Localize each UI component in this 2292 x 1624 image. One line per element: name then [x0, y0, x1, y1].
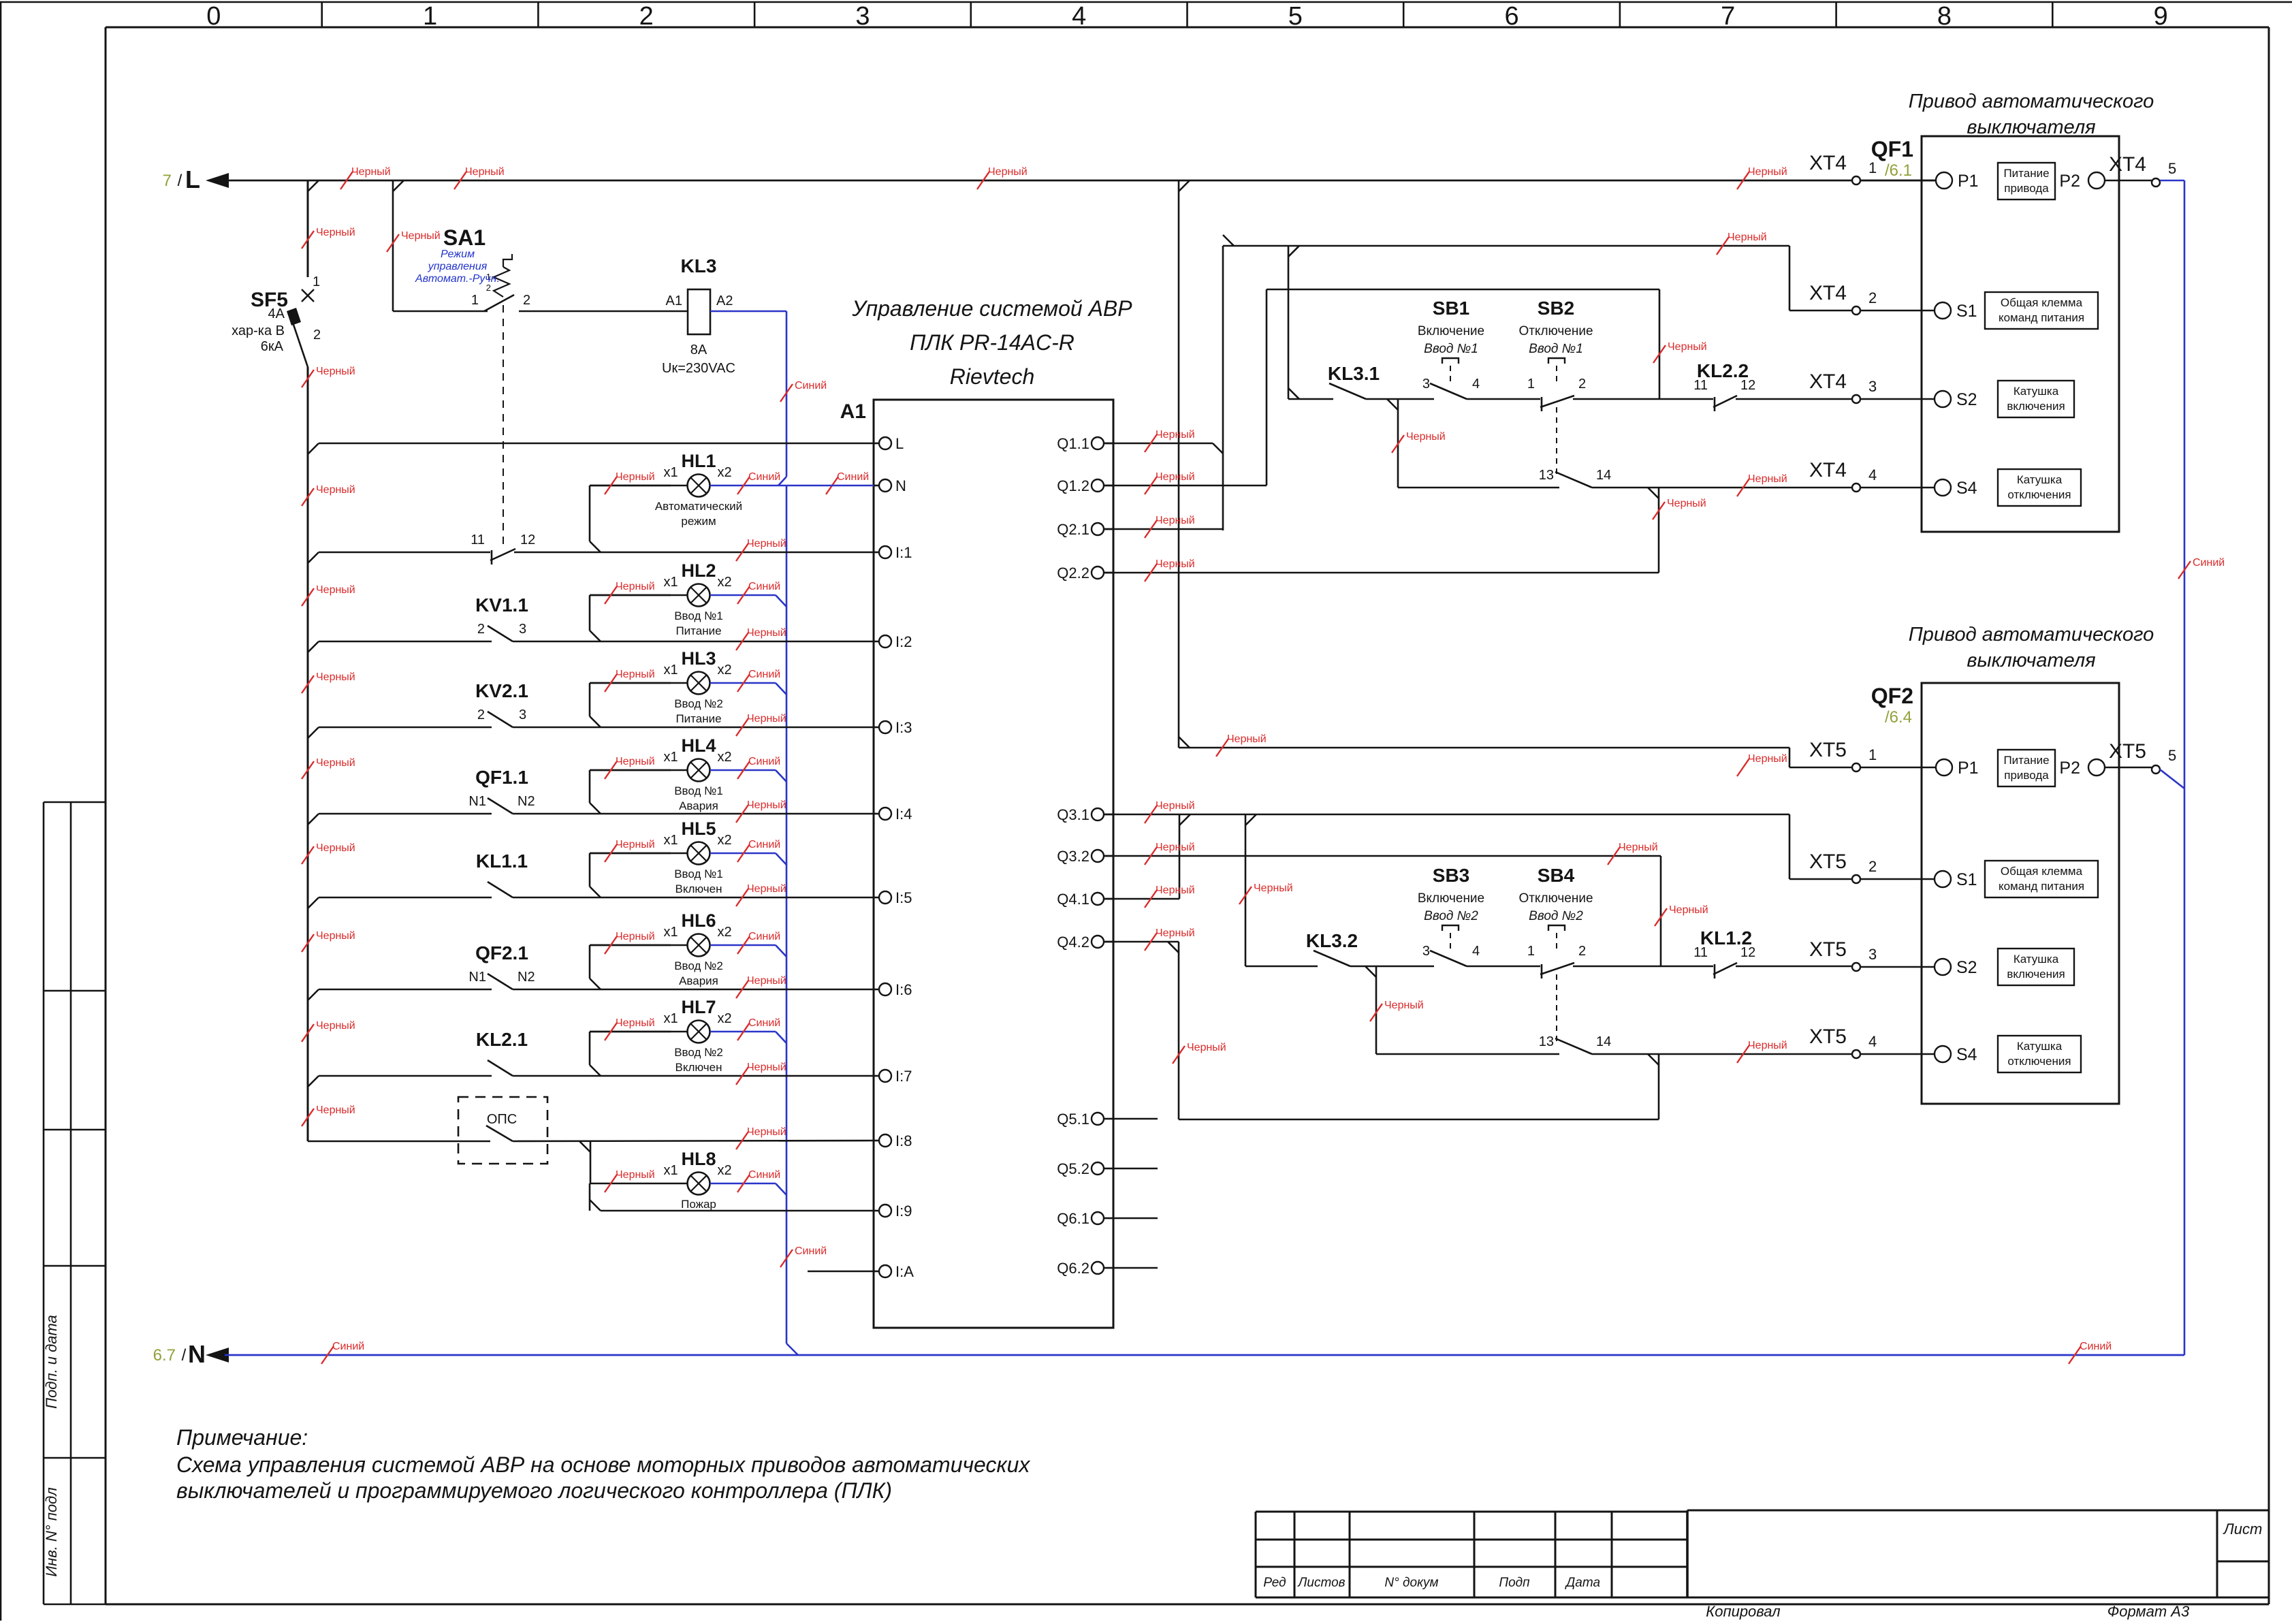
svg-text:Отключение: Отключение [1518, 891, 1593, 906]
svg-text:2: 2 [639, 2, 654, 31]
svg-text:Ввод №1: Ввод №1 [1424, 342, 1478, 356]
svg-text:управления: управления [428, 261, 488, 272]
svg-text:I:5: I:5 [895, 889, 912, 906]
svg-text:Питание: Питание [675, 624, 721, 637]
svg-text:Черный: Черный [747, 799, 786, 811]
svg-text:8А: 8А [690, 343, 707, 357]
svg-text:Ред: Ред [1263, 1576, 1286, 1590]
svg-text:Синий: Синий [2193, 557, 2225, 569]
svg-text:KL2.1: KL2.1 [476, 1029, 528, 1050]
svg-text:XT5: XT5 [1809, 850, 1847, 873]
svg-text:14: 14 [1596, 468, 1611, 483]
svg-text:0: 0 [206, 2, 221, 31]
svg-text:N1: N1 [468, 970, 486, 985]
svg-text:Черный: Черный [1748, 166, 1787, 178]
svg-text:Инв. N° подл: Инв. N° подл [43, 1487, 60, 1576]
svg-text:3: 3 [1868, 946, 1877, 963]
svg-text:2: 2 [477, 622, 485, 637]
svg-text:Черный: Черный [316, 930, 355, 942]
svg-text:x1: x1 [663, 750, 678, 765]
svg-text:HL8: HL8 [681, 1149, 716, 1169]
svg-text:11: 11 [471, 532, 485, 547]
svg-text:Включение: Включение [1418, 324, 1484, 338]
svg-text:Черный: Черный [747, 713, 786, 725]
svg-text:XT4: XT4 [1809, 459, 1847, 481]
svg-text:3: 3 [1868, 378, 1877, 395]
svg-text:/: / [182, 1346, 187, 1365]
svg-text:XT5: XT5 [1809, 739, 1847, 761]
svg-text:x1: x1 [663, 465, 678, 480]
svg-text:N: N [895, 477, 906, 494]
svg-text:Ввод №2: Ввод №2 [674, 959, 723, 972]
svg-text:Черный: Черный [1667, 498, 1706, 509]
svg-text:Синий: Синий [748, 471, 780, 483]
svg-text:x2: x2 [717, 1011, 731, 1026]
svg-text:P2: P2 [2059, 759, 2080, 778]
svg-text:QF2.1: QF2.1 [475, 942, 528, 964]
svg-text:Черный: Черный [1748, 1040, 1787, 1051]
svg-text:I:7: I:7 [895, 1068, 912, 1085]
svg-text:Примечание:: Примечание: [176, 1425, 308, 1450]
svg-text:Включение: Включение [1418, 891, 1484, 906]
svg-text:Ввод №2: Ввод №2 [1424, 909, 1478, 923]
svg-text:Черный: Черный [616, 931, 655, 942]
svg-text:Черный: Черный [747, 883, 786, 895]
svg-text:Черный: Черный [1156, 558, 1195, 570]
svg-text:1: 1 [1527, 944, 1535, 959]
svg-text:Ввод №1: Ввод №1 [674, 609, 723, 622]
svg-text:HL5: HL5 [681, 818, 716, 839]
svg-text:Привод автоматического: Привод автоматического [1909, 91, 2154, 112]
svg-text:Черный: Черный [1156, 885, 1195, 896]
svg-text:Автоматический: Автоматический [655, 500, 742, 513]
svg-text:Пожар: Пожар [681, 1198, 716, 1211]
svg-text:Черный: Черный [1668, 341, 1707, 353]
svg-text:Q3.2: Q3.2 [1057, 848, 1089, 865]
svg-text:Ввод №1: Ввод №1 [1529, 342, 1583, 356]
svg-text:3: 3 [1422, 377, 1430, 392]
svg-text:Черный: Черный [351, 166, 391, 178]
svg-text:Синий: Синий [795, 1245, 827, 1257]
svg-text:4: 4 [1868, 466, 1877, 483]
svg-text:x2: x2 [717, 575, 731, 590]
svg-text:Черный: Черный [1669, 904, 1708, 916]
svg-text:Черный: Черный [1384, 1000, 1424, 1011]
svg-text:Q5.1: Q5.1 [1057, 1111, 1089, 1128]
svg-text:13: 13 [1539, 1034, 1554, 1049]
svg-text:1: 1 [313, 274, 320, 289]
svg-text:Общая клемма: Общая клемма [2001, 296, 2083, 309]
svg-text:4: 4 [1472, 377, 1480, 392]
svg-text:A1: A1 [840, 400, 866, 423]
svg-text:Черный: Черный [1156, 842, 1195, 853]
svg-text:Q1.2: Q1.2 [1057, 477, 1089, 494]
svg-text:1: 1 [1527, 377, 1535, 392]
svg-text:S4: S4 [1956, 1045, 1977, 1064]
svg-text:2: 2 [1578, 377, 1586, 392]
svg-text:x1: x1 [663, 1163, 678, 1178]
svg-text:Черный: Черный [316, 757, 355, 769]
svg-text:Автомат.-Ручн.: Автомат.-Ручн. [415, 273, 500, 285]
svg-text:Черный: Черный [316, 671, 355, 683]
svg-text:Черный: Черный [316, 1104, 355, 1116]
svg-text:Синий: Синий [748, 1017, 780, 1029]
svg-text:включения: включения [2007, 968, 2065, 981]
svg-text:Синий: Синий [2080, 1341, 2112, 1352]
svg-text:Черный: Черный [465, 166, 505, 178]
svg-text:Катушка: Катушка [2017, 1040, 2063, 1053]
svg-text:Черный: Черный [316, 584, 355, 596]
svg-text:SA1: SA1 [443, 225, 486, 250]
svg-text:Черный: Черный [616, 581, 655, 592]
svg-text:Авария: Авария [679, 974, 718, 987]
svg-text:14: 14 [1596, 1034, 1611, 1049]
svg-text:Q3.1: Q3.1 [1057, 806, 1089, 823]
svg-text:HL3: HL3 [681, 648, 716, 669]
svg-text:включения: включения [2007, 400, 2065, 413]
svg-text:x2: x2 [717, 663, 731, 678]
svg-text:Q2.2: Q2.2 [1057, 564, 1089, 582]
svg-text:Отключение: Отключение [1518, 324, 1593, 338]
svg-text:Ввод №1: Ввод №1 [674, 867, 723, 880]
svg-text:Черный: Черный [1227, 733, 1267, 745]
svg-text:3: 3 [519, 707, 526, 722]
svg-text:Q6.2: Q6.2 [1057, 1260, 1089, 1277]
svg-text:Синий: Синий [748, 931, 780, 942]
svg-text:Питание: Питание [675, 712, 721, 725]
svg-text:S2: S2 [1956, 390, 1977, 409]
svg-text:N1: N1 [468, 794, 486, 809]
svg-text:12: 12 [1740, 945, 1755, 960]
svg-text:11: 11 [1693, 378, 1708, 393]
svg-text:2: 2 [477, 707, 485, 722]
svg-text:Черный: Черный [1748, 753, 1787, 765]
svg-text:Черный: Черный [1619, 842, 1658, 853]
svg-text:Черный: Черный [1254, 882, 1293, 894]
svg-text:Синий: Синий [748, 581, 780, 592]
svg-text:L: L [895, 435, 904, 452]
svg-text:Питание: Питание [2003, 167, 2049, 180]
svg-text:12: 12 [520, 532, 535, 547]
svg-text:I:1: I:1 [895, 544, 912, 561]
svg-text:x1: x1 [663, 575, 678, 590]
svg-text:XT5: XT5 [2109, 740, 2146, 763]
svg-text:/6.4: /6.4 [1885, 708, 1912, 727]
svg-text:HL7: HL7 [681, 997, 716, 1017]
svg-text:команд питания: команд питания [1999, 311, 2084, 324]
svg-text:4: 4 [1072, 2, 1086, 31]
svg-text:S4: S4 [1956, 479, 1977, 498]
svg-text:Синий: Синий [748, 839, 780, 850]
svg-text:Катушка: Катушка [2017, 473, 2063, 486]
svg-text:QF2: QF2 [1871, 684, 1913, 708]
svg-text:Включен: Включен [675, 882, 722, 895]
svg-text:Q4.1: Q4.1 [1057, 891, 1089, 908]
svg-text:выключателя: выключателя [1967, 650, 2095, 671]
svg-text:7: 7 [163, 172, 172, 190]
svg-text:Черный: Черный [747, 627, 786, 639]
svg-text:Черный: Черный [616, 471, 655, 483]
svg-text:Подп. и дата: Подп. и дата [43, 1315, 60, 1409]
svg-text:Синий: Синий [795, 380, 827, 392]
svg-text:XT4: XT4 [1809, 370, 1847, 393]
svg-text:команд питания: команд питания [1999, 880, 2084, 893]
svg-text:I:A: I:A [895, 1263, 914, 1280]
svg-text:ПЛК PR-14AC-R: ПЛК PR-14AC-R [910, 330, 1075, 355]
svg-text:KV1.1: KV1.1 [475, 594, 528, 616]
svg-text:Ввод №2: Ввод №2 [674, 1046, 723, 1059]
svg-text:P2: P2 [2059, 172, 2080, 191]
svg-text:Управление системой АВР: Управление системой АВР [851, 296, 1132, 321]
svg-text:4А: 4А [268, 306, 285, 321]
svg-text:Дата: Дата [1565, 1576, 1600, 1590]
svg-text:Черный: Черный [401, 230, 441, 242]
svg-text:1: 1 [1868, 746, 1877, 763]
svg-text:3: 3 [855, 2, 870, 31]
svg-text:I:6: I:6 [895, 981, 912, 998]
svg-text:5: 5 [1288, 2, 1303, 31]
svg-text:SB2: SB2 [1538, 298, 1574, 319]
svg-text:A1: A1 [666, 293, 682, 308]
svg-text:выключателей и программируемог: выключателей и программируемого логическ… [176, 1478, 892, 1503]
svg-text:XT5: XT5 [1809, 938, 1847, 961]
svg-text:2: 2 [1868, 289, 1877, 306]
svg-text:HL6: HL6 [681, 910, 716, 931]
svg-text:Черный: Черный [747, 1062, 786, 1073]
svg-text:HL4: HL4 [681, 735, 716, 756]
svg-text:S2: S2 [1956, 958, 1977, 977]
svg-text:/: / [178, 172, 182, 190]
svg-text:Черный: Черный [1728, 232, 1767, 243]
svg-text:KL1.1: KL1.1 [476, 850, 528, 872]
svg-text:A2: A2 [716, 293, 733, 308]
svg-text:I:4: I:4 [895, 806, 912, 823]
svg-text:Q2.1: Q2.1 [1057, 521, 1089, 538]
svg-text:отключения: отключения [2007, 488, 2071, 501]
svg-text:Черный: Черный [1406, 431, 1446, 443]
svg-text:Черный: Черный [316, 842, 355, 854]
svg-text:Черный: Черный [1187, 1042, 1226, 1053]
svg-text:Черный: Черный [1748, 473, 1787, 485]
svg-text:5: 5 [2168, 747, 2176, 764]
svg-text:XT5: XT5 [1809, 1025, 1847, 1048]
svg-text:6.7: 6.7 [153, 1346, 176, 1365]
svg-text:Листов: Листов [1296, 1576, 1345, 1590]
svg-text:P1: P1 [1958, 759, 1979, 778]
svg-text:S1: S1 [1956, 302, 1977, 321]
svg-text:Черный: Черный [616, 1017, 655, 1029]
svg-text:6кА: 6кА [261, 339, 284, 354]
svg-text:13: 13 [1539, 468, 1554, 483]
svg-text:SB1: SB1 [1433, 298, 1469, 319]
svg-text:5: 5 [2168, 160, 2176, 177]
svg-text:I:3: I:3 [895, 719, 912, 736]
svg-text:Q4.2: Q4.2 [1057, 934, 1089, 951]
svg-text:отключения: отключения [2007, 1055, 2071, 1068]
svg-text:привода: привода [2004, 182, 2049, 195]
svg-text:3: 3 [1422, 944, 1430, 959]
svg-text:2: 2 [1578, 944, 1586, 959]
svg-text:Синий: Синий [332, 1341, 364, 1352]
svg-text:x1: x1 [663, 833, 678, 848]
svg-text:/6.1: /6.1 [1885, 161, 1912, 180]
svg-text:Лист: Лист [2223, 1520, 2263, 1538]
svg-text:x2: x2 [717, 465, 731, 480]
svg-text:N° докум: N° докум [1384, 1576, 1438, 1590]
svg-text:P1: P1 [1958, 172, 1979, 191]
svg-text:Черный: Черный [1156, 471, 1195, 483]
svg-text:Черный: Черный [988, 166, 1028, 178]
svg-text:2: 2 [1868, 858, 1877, 875]
svg-text:8: 8 [1937, 2, 1952, 31]
svg-text:N2: N2 [518, 970, 535, 985]
svg-text:6: 6 [1504, 2, 1518, 31]
svg-text:N2: N2 [518, 794, 535, 809]
svg-text:Авария: Авария [679, 799, 718, 812]
svg-text:Черный: Черный [316, 366, 355, 377]
svg-text:Черный: Черный [1156, 927, 1195, 939]
svg-text:Формат А3: Формат А3 [2107, 1603, 2190, 1620]
svg-text:Uк=230VAC: Uк=230VAC [662, 361, 735, 376]
svg-text:Черный: Черный [316, 484, 355, 496]
svg-text:Ввод №2: Ввод №2 [1529, 909, 1583, 923]
svg-text:1: 1 [423, 2, 437, 31]
svg-text:Черный: Черный [616, 839, 655, 850]
svg-text:I:2: I:2 [895, 633, 912, 650]
svg-text:2: 2 [523, 293, 530, 308]
svg-text:Q5.2: Q5.2 [1057, 1160, 1089, 1177]
svg-text:4: 4 [1868, 1033, 1877, 1050]
svg-text:HL2: HL2 [681, 560, 716, 581]
svg-text:Rievtech: Rievtech [950, 364, 1035, 389]
svg-text:Катушка: Катушка [2014, 385, 2059, 398]
svg-text:XT4: XT4 [1809, 152, 1847, 174]
svg-text:S1: S1 [1956, 870, 1977, 889]
svg-text:HL1: HL1 [681, 451, 716, 471]
svg-text:Питание: Питание [2003, 754, 2049, 767]
svg-text:Катушка: Катушка [2014, 953, 2059, 966]
svg-text:Черный: Черный [747, 538, 786, 550]
svg-text:Подп: Подп [1499, 1576, 1530, 1590]
svg-text:Черный: Черный [747, 1126, 786, 1138]
svg-text:x1: x1 [663, 1011, 678, 1026]
svg-text:2: 2 [313, 328, 321, 343]
svg-text:Q1.1: Q1.1 [1057, 435, 1089, 452]
svg-text:N: N [188, 1340, 206, 1368]
svg-text:7: 7 [1721, 2, 1735, 31]
svg-text:Синий: Синий [837, 471, 869, 483]
svg-text:x2: x2 [717, 833, 731, 848]
svg-text:Черный: Черный [1156, 515, 1195, 526]
svg-text:режим: режим [681, 515, 716, 528]
svg-text:XT4: XT4 [2109, 153, 2146, 176]
svg-text:QF1.1: QF1.1 [475, 767, 528, 788]
svg-text:3: 3 [519, 622, 526, 637]
svg-text:I:9: I:9 [895, 1203, 912, 1220]
svg-text:9: 9 [2154, 2, 2168, 31]
svg-text:x2: x2 [717, 1163, 731, 1178]
svg-text:KL3.1: KL3.1 [1328, 363, 1380, 384]
svg-text:Черный: Черный [747, 975, 786, 987]
svg-text:KL3.2: KL3.2 [1306, 930, 1358, 951]
svg-text:Черный: Черный [316, 227, 355, 238]
svg-text:Схема управления системой АВР: Схема управления системой АВР на основе … [176, 1452, 1030, 1477]
svg-text:Включен: Включен [675, 1061, 722, 1074]
svg-text:QF1: QF1 [1871, 137, 1913, 161]
svg-text:L: L [185, 165, 200, 193]
svg-text:1: 1 [471, 293, 479, 308]
svg-text:Режим: Режим [441, 249, 475, 260]
svg-text:I:8: I:8 [895, 1132, 912, 1149]
svg-text:Черный: Черный [616, 1169, 655, 1181]
svg-text:x1: x1 [663, 925, 678, 940]
svg-text:Общая клемма: Общая клемма [2001, 865, 2083, 878]
svg-text:x2: x2 [717, 750, 731, 765]
svg-text:Черный: Черный [616, 669, 655, 680]
svg-text:Синий: Синий [748, 756, 780, 767]
svg-text:Ввод №2: Ввод №2 [674, 697, 723, 710]
svg-text:1: 1 [1868, 159, 1877, 176]
svg-text:12: 12 [1740, 378, 1755, 393]
svg-text:SB3: SB3 [1433, 865, 1469, 886]
svg-text:Черный: Черный [616, 756, 655, 767]
svg-text:4: 4 [1472, 944, 1480, 959]
svg-text:Черный: Черный [1156, 429, 1195, 441]
svg-text:SB4: SB4 [1538, 865, 1575, 886]
svg-text:XT4: XT4 [1809, 282, 1847, 304]
svg-text:Синий: Синий [748, 669, 780, 680]
svg-text:Привод автоматического: Привод автоматического [1909, 624, 2154, 646]
svg-text:Копировал: Копировал [1706, 1603, 1780, 1620]
svg-text:хар-ка В: хар-ка В [232, 323, 285, 338]
svg-text:Черный: Черный [1156, 800, 1195, 812]
svg-text:KV2.1: KV2.1 [475, 680, 528, 701]
svg-text:Черный: Черный [316, 1020, 355, 1032]
svg-text:x2: x2 [717, 925, 731, 940]
svg-text:Ввод №1: Ввод №1 [674, 784, 723, 797]
svg-text:11: 11 [1693, 945, 1708, 960]
svg-text:x1: x1 [663, 663, 678, 678]
svg-text:выключателя: выключателя [1967, 116, 2095, 138]
svg-text:привода: привода [2004, 769, 2049, 782]
svg-text:KL3: KL3 [681, 255, 717, 276]
svg-text:ОПС: ОПС [487, 1112, 517, 1127]
svg-text:Q6.1: Q6.1 [1057, 1210, 1089, 1227]
svg-text:Синий: Синий [748, 1169, 780, 1181]
